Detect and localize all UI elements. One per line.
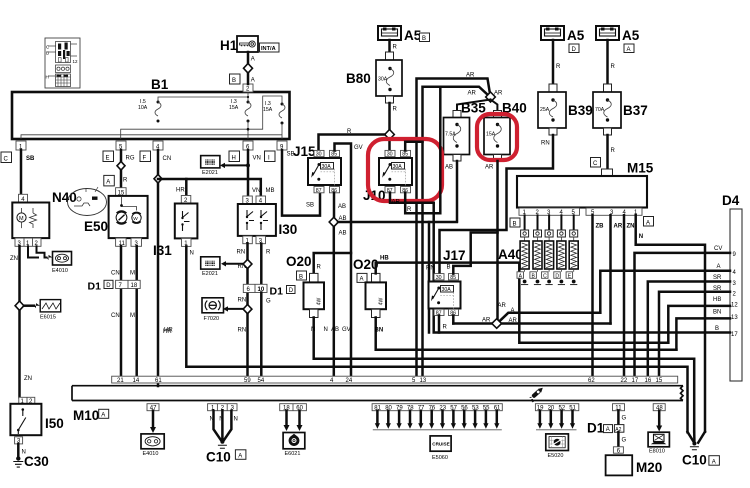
svg-text:HB: HB [713,297,721,303]
fuse B39 25A [538,84,593,135]
highlight ring around J10 [368,139,442,201]
splice AB [329,217,338,226]
svg-text:M: M [130,271,135,277]
svg-text:M10: M10 [73,408,99,423]
svg-text:D: D [106,283,111,289]
svg-text:A: A [101,413,105,419]
svg-text:H: H [232,156,236,162]
throttle module E5020 [546,434,569,459]
wire R to J15.30 [319,135,385,151]
svg-text:N: N [324,327,328,333]
svg-text:D4: D4 [722,193,740,208]
svg-text:AR: AR [482,318,491,324]
svg-text:M20: M20 [636,460,662,475]
svg-text:SB: SB [26,156,35,162]
svg-text:B35: B35 [461,101,486,116]
svg-text:RN: RN [541,141,550,147]
svg-text:C10: C10 [206,450,231,465]
svg-text:25A: 25A [540,107,550,113]
svg-text:E: E [106,156,110,162]
svg-text:D1: D1 [587,421,605,436]
svg-text:21: 21 [117,378,124,384]
splice diamond on R feed [385,130,395,140]
svg-text:A: A [251,57,255,63]
wire HR tap line [158,179,261,196]
svg-text:AB: AB [445,165,453,171]
svg-text:D1: D1 [270,286,284,298]
bus pin row top [112,376,678,383]
wire ZN N40.3 down [18,246,21,397]
wire A diagonal from splice [500,313,600,321]
node C at M15 [591,158,601,168]
svg-text:GV: GV [354,145,363,151]
svg-text:D: D [572,47,577,53]
svg-text:H: H [46,75,49,80]
svg-text:RN: RN [237,250,246,256]
pin row 1 2 3 [208,404,237,411]
relay J10 [363,150,412,203]
motor N40 [12,190,76,247]
fuse I.3 15A right inside B1 [263,101,285,125]
wire arrow to E4010 [152,411,155,428]
wire J10.85 jog [405,142,422,151]
svg-text:AB: AB [331,327,339,333]
switch I50 [10,397,63,444]
connector E4010 [141,434,164,457]
svg-text:MB: MB [266,188,275,194]
svg-text:ZN: ZN [24,376,32,382]
battery A5 (B) [378,26,430,43]
fuse B40 15A [484,101,527,162]
svg-text:D: D [555,273,559,279]
svg-text:54: 54 [258,378,265,384]
switch I30 [238,188,297,245]
wire SR bus15 to D4.2 [659,292,730,376]
svg-text:A: A [717,264,721,270]
wire AB J15.86 to bus 4 [333,193,336,218]
wire SR bus16 to D4.3 [648,282,730,377]
wire M E50.3 to bus 14 [135,246,138,376]
svg-text:M: M [130,313,135,319]
wire to B35 top [457,100,491,111]
control unit M20 [606,455,633,475]
svg-text:15: 15 [656,378,663,384]
svg-text:E6021: E6021 [285,451,301,457]
svg-text:E4010: E4010 [52,268,68,274]
svg-text:RG: RG [126,156,135,162]
svg-text:AR: AR [498,303,507,309]
relay J17 [429,248,466,317]
svg-text:85: 85 [331,152,337,158]
B1 pin 9 [277,141,287,150]
cruise module E5060 [430,436,451,451]
splice on RG wire [117,162,125,171]
svg-text:30: 30 [316,152,322,158]
svg-text:A: A [712,459,716,465]
wire to bus pin 5 [415,203,418,376]
B1 pin 1 [16,141,26,150]
wire CN E50.11 to bus 21 [120,246,123,376]
wire RN I30.1 to bus 59 [246,244,249,377]
splice arrow to F7020 [229,308,248,310]
wire from O20B N to apex [693,432,696,442]
svg-text:A: A [646,220,650,226]
splice arrow to E2021 lower [227,263,248,265]
svg-text:30: 30 [436,275,442,281]
lamp O20 B [286,254,324,318]
svg-text:E2021: E2021 [202,271,218,277]
node C [1,152,12,163]
injector A40-D [554,215,566,284]
svg-text:HR: HR [164,328,173,334]
svg-text:A: A [106,180,110,186]
svg-text:C30: C30 [24,454,49,469]
svg-text:B: B [46,51,49,56]
svg-text:B: B [447,265,451,271]
wire AB B35 down [456,161,459,222]
relay J15 [293,144,341,194]
wire BN to D4.13 [676,318,730,349]
svg-text:W: W [133,216,138,222]
svg-text:30A: 30A [393,164,403,170]
svg-text:59: 59 [244,378,251,384]
fuse B35 7.5A [444,101,487,162]
wire B J17.85 jog [453,233,497,274]
svg-text:ZN: ZN [627,224,635,230]
wire HB to D4.12 [668,306,730,343]
svg-text:H1: H1 [220,38,238,53]
svg-text:AR: AR [485,165,494,171]
wire N O20B to C10 [314,318,695,432]
resistor E6015 [24,300,61,321]
svg-text:RN: RN [238,298,247,304]
control unit M15 [517,176,647,208]
pump module E6021 [283,433,305,458]
wire AB splice to B35 [338,221,457,224]
svg-text:AB: AB [338,204,346,210]
wire R to B39 [552,40,555,84]
wire BN O20A to D4 [376,318,677,350]
svg-text:D1: D1 [88,281,102,293]
svg-text:13: 13 [731,315,738,321]
injector A40-C [542,215,554,284]
wire AR horizontal [453,322,610,325]
battery A5 (D) [541,26,585,53]
wire RN B39 to J17.30 [440,135,554,274]
svg-text:INT/A: INT/A [261,46,276,52]
svg-text:30: 30 [387,152,393,158]
node B [510,218,520,227]
svg-text:24: 24 [346,378,353,384]
svg-text:30A: 30A [442,287,452,293]
ground C10 [220,440,224,444]
svg-text:CRUISE: CRUISE [432,442,449,447]
svg-text:I30: I30 [279,222,298,237]
wire SB from B1 pin 9 to J15 pin 87 [282,150,320,216]
svg-text:15A: 15A [229,105,239,111]
svg-text:CN: CN [111,271,120,277]
svg-text:AR: AR [614,224,623,230]
wire R I30.3 to D1.10 [260,244,263,285]
wire AR feed lower [423,87,491,214]
pins 18 60 [280,404,307,411]
B1 pin 6 [243,141,253,150]
svg-text:SB: SB [306,203,314,209]
injector A40-E [566,215,578,284]
svg-text:AB: AB [339,231,347,237]
svg-text:ZN: ZN [10,256,18,262]
svg-text:N: N [311,327,315,333]
svg-text:BN: BN [375,328,384,334]
svg-text:17: 17 [731,332,738,338]
svg-text:HR: HR [176,188,185,194]
svg-text:22: 22 [621,378,628,384]
splice diamond AR to fuses [486,92,496,102]
svg-text:ZB: ZB [596,224,605,230]
fuse B37 70A [593,84,648,135]
wire ZN M15.4 to bus 22 [623,215,626,376]
svg-text:RN: RN [238,328,247,334]
svg-text:E5060: E5060 [432,455,448,461]
svg-text:E2021: E2021 [202,170,218,176]
svg-text:B: B [715,326,719,332]
B1 pin 5 [116,141,126,150]
highlight ring around B40 [477,114,517,160]
svg-text:HB: HB [380,256,389,262]
node H [229,151,240,162]
svg-text:AR: AR [509,318,518,324]
brake module F7020 [202,298,224,322]
wire R battery to B80 [388,40,391,52]
svg-text:85: 85 [450,275,456,281]
svg-text:M15: M15 [627,161,654,176]
svg-text:4W: 4W [317,297,323,305]
splice on CN wire [154,175,162,184]
arrow bundle to E5060 [373,411,502,430]
svg-text:A: A [238,454,242,460]
svg-text:I31: I31 [153,243,172,258]
svg-text:B: B [299,274,303,280]
svg-text:16: 16 [645,378,652,384]
svg-text:B: B [422,36,426,42]
wire RG from B1 pin 5 [120,150,123,188]
ground C30 [16,456,20,460]
pin 11 [613,404,625,411]
svg-text:A: A [360,277,364,283]
svg-text:R: R [556,64,561,70]
svg-text:15A: 15A [263,107,273,113]
svg-text:R: R [407,207,412,213]
svg-text:CN: CN [111,313,120,319]
ground C10 right [688,432,705,443]
pin group 19 20 52 51 [535,404,578,411]
svg-text:C: C [543,273,547,279]
svg-text:R: R [266,250,271,256]
svg-text:C: C [593,161,598,167]
svg-text:14: 14 [133,378,140,384]
svg-text:B: B [232,78,236,84]
svg-text:A5: A5 [567,28,585,43]
wire ZB M15.5 to bus 62 [591,215,594,376]
svg-text:G: G [266,299,271,305]
svg-text:12: 12 [731,303,738,309]
node I [265,151,276,162]
wire R J17.87 to B line [438,316,441,333]
svg-text:13: 13 [420,378,427,384]
node INT/A [260,43,280,52]
arrow bundle to E5020 [536,411,577,430]
svg-text:61: 61 [155,378,162,384]
svg-text:B: B [513,221,517,227]
wire branch down from AB line [428,222,431,333]
wire N M15.1 to C10 [636,215,705,431]
svg-text:O20: O20 [286,254,312,269]
node E [103,151,114,162]
svg-text:CN: CN [163,156,172,162]
injector A40-A [517,215,529,284]
wire GV J15.85 to O20B and bus 24 [335,144,352,377]
B1 pin 2 top [243,84,253,92]
wire CV bus17 to D4.9 [635,253,731,376]
splice to E6015 [15,301,24,310]
wire AR B40 down to splice [496,161,499,324]
svg-text:E50: E50 [84,219,108,234]
svg-text:AR: AR [494,91,503,97]
svg-text:A: A [627,47,631,53]
svg-text:R: R [611,64,616,70]
connector D4 [730,209,742,381]
svg-text:A: A [251,78,255,84]
connector E4010 at N40 [28,246,72,274]
wire AR M15.3 to splice [609,215,612,323]
wire R B37 to M15 [606,135,609,169]
instrument cluster E50 [68,175,148,246]
wire SB from B1 pin 1 [20,150,23,194]
svg-text:C: C [4,157,9,163]
lamp module E2021 lower [201,257,220,277]
wire AR J10.87 jog [390,193,434,203]
svg-text:R: R [393,45,398,51]
node F [140,151,151,162]
svg-text:B37: B37 [623,103,648,118]
svg-text:J15: J15 [293,144,316,159]
svg-text:M: M [19,216,24,222]
junction unit B1 [12,92,290,139]
wire HB O20A top [376,263,669,343]
wire AR J17.86 to splice [452,316,455,324]
svg-text:A5: A5 [622,28,640,43]
node A [644,217,654,227]
fuse B80 30A [346,52,402,103]
svg-text:62: 62 [588,378,595,384]
fuse I.5 10A inside B1 [138,99,161,123]
svg-text:GV: GV [342,327,351,333]
svg-text:18: 18 [131,283,138,289]
wire VN from B1 pin 6 [247,150,250,196]
svg-text:E4010: E4010 [143,451,159,457]
injector A40-B [530,215,542,284]
fuse I.3 15A inside B1 [229,99,251,123]
svg-text:A: A [606,427,610,433]
wire CN from B1 pin 4 [157,150,160,386]
svg-text:87: 87 [316,188,322,194]
svg-text:AR: AR [392,200,401,206]
svg-text:E8010: E8010 [649,449,665,455]
svg-text:R: R [347,129,352,135]
diagnostic tester E8010 [648,432,669,454]
wire HR to I31.2 [185,179,188,196]
svg-text:CV: CV [714,246,722,252]
svg-text:VN: VN [253,156,261,162]
svg-text:C10: C10 [682,453,707,468]
svg-text:R: R [123,178,128,184]
svg-text:85: 85 [402,152,408,158]
wire A from H1 [247,52,250,84]
wire to bus pin 13 [421,213,424,376]
node B [230,74,241,84]
svg-text:I50: I50 [45,416,64,431]
svg-text:12: 12 [73,59,79,64]
wire R to B37 [606,40,609,84]
svg-text:B1: B1 [151,77,169,92]
H1 ignition switch [237,36,258,52]
wire R J10.86 jog [405,87,440,214]
pin 48 [653,404,665,411]
M15 connector box top [602,169,613,176]
connector D1 (D) lower [243,284,267,292]
B1 internal thin wiring [158,92,248,102]
svg-text:SR: SR [713,286,722,292]
wire branch to O20 B top [314,253,351,273]
wire B to D4.17 [434,203,730,333]
switch I31 [153,196,197,259]
arrow from VN wire to E2021 [226,164,248,166]
lamp O20 A [353,257,386,318]
wire G D1.10 to bus 54 [260,293,263,377]
svg-text:10A: 10A [138,105,148,111]
splice on H1 wire [244,64,253,74]
svg-text:G: G [622,416,627,422]
svg-text:R: R [611,148,616,154]
arrows to E6021 [285,411,288,426]
svg-text:SR: SR [713,275,722,281]
svg-text:BN: BN [713,310,721,316]
wire AR feed upper [417,79,491,203]
svg-text:J17: J17 [443,248,466,263]
svg-text:E5020: E5020 [548,453,564,459]
svg-text:AR: AR [468,91,477,97]
wire R B80 down to J10.30 [388,103,391,151]
svg-text:30A: 30A [322,164,332,170]
svg-text:G: G [622,438,627,444]
svg-text:A40: A40 [498,247,523,262]
svg-text:E6015: E6015 [40,315,56,321]
wire A to D4.4 [600,271,730,313]
svg-text:N: N [190,251,194,257]
svg-text:4W: 4W [379,297,385,305]
wiring harness bus M10 [72,386,683,401]
svg-text:R: R [393,107,398,113]
svg-text:N: N [234,417,238,423]
wire N I31.1 to C10 [186,246,687,432]
splice AR diamond [492,319,502,329]
legend connector chart [45,38,80,88]
pin group 81-61 [372,404,502,411]
svg-text:17: 17 [632,378,639,384]
M15 pin row [519,208,580,215]
svg-text:RN: RN [426,266,435,272]
svg-text:N: N [639,234,643,240]
